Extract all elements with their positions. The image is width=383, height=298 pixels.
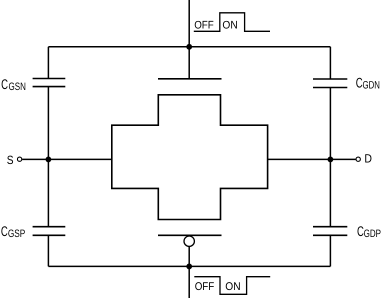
terminal S open circle: [17, 157, 21, 161]
terminal D open circle: [356, 157, 360, 161]
wire bottom control line: [188, 266, 190, 298]
capacitor CGSN: [33, 79, 66, 87]
wire D lead: [268, 158, 356, 160]
wire left rail middle: [47, 87, 49, 227]
wire bottom gate rail: [48, 265, 330, 267]
wire top gate rail: [48, 46, 330, 48]
wire left rail upper: [47, 47, 49, 79]
wire NMOS gate lead: [188, 47, 190, 79]
svg-text:GDN: GDN: [363, 80, 380, 92]
svg-text:C: C: [1, 223, 8, 239]
transistor channel cross outline: [112, 95, 268, 220]
node D junction: [328, 157, 334, 163]
label capacitor CGDN: [356, 75, 380, 92]
capacitor CGSP: [33, 227, 66, 236]
wire PMOS gate lead: [188, 247, 190, 267]
svg-text:ON: ON: [225, 281, 240, 293]
label capacitor CGSN: [1, 76, 26, 93]
svg-text:D: D: [364, 152, 372, 166]
node bottom gate junction: [186, 264, 192, 270]
node S junction: [46, 157, 52, 163]
transistor PMOS gate bubble: [184, 236, 194, 246]
svg-text:OFF: OFF: [194, 20, 214, 32]
label capacitor CGDP: [357, 223, 381, 240]
capacitor CGDN: [313, 79, 347, 88]
svg-text:S: S: [7, 153, 14, 167]
node top gate junction: [186, 44, 192, 50]
svg-text:C: C: [1, 76, 8, 92]
transistor PMOS gate bar: [158, 234, 222, 236]
wire left rail lower: [47, 235, 49, 266]
svg-text:GSP: GSP: [8, 228, 25, 240]
wire right rail middle: [329, 88, 331, 227]
wire S lead: [22, 158, 112, 160]
transistor NMOS gate bar: [158, 78, 222, 80]
waveform bottom control pulse: [194, 277, 270, 295]
svg-text:ON: ON: [222, 20, 237, 32]
label capacitor CGSP: [1, 223, 25, 240]
wire right rail lower: [329, 235, 331, 266]
waveform top control pulse: [194, 13, 270, 32]
svg-text:OFF: OFF: [195, 281, 215, 293]
wire right rail upper: [329, 47, 331, 79]
svg-text:GDP: GDP: [364, 228, 381, 240]
wire top control line: [188, 0, 190, 47]
svg-text:GSN: GSN: [9, 81, 26, 93]
capacitor CGDP: [313, 227, 347, 236]
